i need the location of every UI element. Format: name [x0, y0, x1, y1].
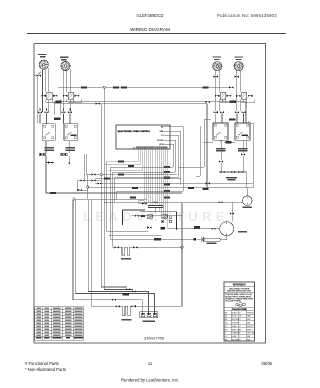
switch LF label [45, 147, 55, 149]
oven light label [121, 258, 131, 260]
bold bus [123, 210, 177, 230]
bottom bend wires to terminal block [73, 200, 155, 313]
wire label P-62 [54, 118, 61, 120]
wire y167 [111, 119, 212, 239]
svg-text:GREEN: GREEN [232, 323, 239, 325]
bowtie right bus [206, 101, 210, 103]
indicator bowtie 1 [220, 171, 224, 173]
color code separator [224, 306, 255, 308]
wire stub from switch LR [68, 141, 70, 165]
conv motor ticks [246, 197, 248, 205]
wire label HEAT left [56, 101, 62, 103]
door lock wave row [120, 305, 182, 307]
junction node [103, 86, 105, 88]
svg-text:BLACK: BLACK [232, 311, 239, 314]
surface unit RF [39, 60, 48, 69]
svg-text:ELECTRONIC OVEN CONTROL: ELECTRONIC OVEN CONTROL [118, 131, 151, 133]
svg-text:L2 OUT: L2 OUT [157, 140, 164, 142]
EOC right pin wires bending down [170, 127, 183, 191]
svg-text:A1: A1 [133, 147, 135, 150]
wire gauge table text [37, 308, 83, 337]
surface switch LR box [64, 124, 78, 141]
electronic oven control box [116, 125, 170, 149]
surface switch RF box [235, 123, 250, 140]
wire label [118, 173, 124, 175]
surface unit RF2 [234, 62, 243, 71]
wire label right bus [230, 101, 237, 103]
wire label P-63 [229, 118, 236, 120]
limiter LR loop wire [68, 100, 81, 103]
svg-text:WIRING DIAGRAM: WIRING DIAGRAM [130, 27, 170, 32]
warning box [224, 282, 255, 341]
terminal block label [143, 321, 156, 323]
relay pins 2 [169, 220, 171, 222]
surface switch RR box [213, 123, 228, 140]
hot surface indicator row [207, 172, 246, 188]
bowtie [218, 201, 222, 203]
limiter RR [215, 92, 231, 99]
wire y202.3 conv feed [104, 202, 242, 221]
svg-text:Publication No: 5995436903: Publication No: 5995436903 [217, 13, 277, 18]
wire label OR-36 [50, 192, 56, 194]
connector below switch LR [61, 153, 67, 156]
wire drop to switch A [54, 102, 61, 115]
conv motor label [243, 207, 253, 209]
bowtie [116, 305, 120, 307]
surface unit LF [61, 61, 70, 70]
wire label [154, 238, 161, 240]
connector bowtie RF [235, 76, 239, 78]
connector below switch LF [39, 153, 45, 156]
limiter RR loop wire [220, 100, 233, 103]
dark blob [161, 227, 166, 230]
wire left drop [34, 72, 41, 124]
bowtie on bus [229, 86, 233, 88]
limiter RF loop wire [241, 100, 254, 103]
nested corner wires [107, 231, 162, 239]
wire y161.5 [106, 162, 108, 232]
wire label [118, 160, 124, 162]
svg-text:L2 IN: L2 IN [159, 144, 164, 146]
conv motor [243, 196, 253, 206]
svg-text:YELLOW STRIPE.: YELLOW STRIPE. [225, 301, 241, 303]
connector bowtie [44, 111, 48, 113]
hot surface indicator label [226, 177, 237, 179]
wire y178.6 [95, 178, 181, 180]
tracer paragraph [225, 293, 253, 302]
switch RR label [216, 148, 226, 150]
wire drops from surface unit RF [237, 71, 244, 112]
indicator lamp [231, 171, 235, 173]
switch LR label [66, 147, 76, 149]
wire stubs into switch A [40, 108, 70, 124]
svg-text:GRAY: GRAY [232, 335, 238, 338]
wire y191 [117, 191, 183, 199]
svg-text:GRAY: GRAY [232, 325, 238, 328]
wire y215.7 [132, 215, 183, 217]
svg-text:BLUE: BLUE [232, 316, 237, 318]
EOC pin stubs [164, 127, 170, 145]
connector bowtie [68, 111, 72, 113]
door lock wave element [121, 306, 133, 316]
oven light row [113, 246, 183, 248]
wire label [130, 196, 136, 198]
wire label on RR wire [226, 141, 232, 143]
wire bend into switch D [245, 102, 247, 124]
limiter LF [41, 92, 57, 99]
bowtie lower [147, 226, 151, 228]
wire into fan motor [168, 228, 220, 230]
wire y174.4 [86, 126, 200, 176]
bowtie right [206, 182, 210, 184]
pin wire label 5 [164, 190, 170, 192]
bowtie [80, 180, 84, 182]
color code rows [225, 311, 255, 341]
limiter RF [236, 92, 252, 99]
relay contact pair [162, 220, 164, 222]
bowtie on L1 run [112, 299, 116, 301]
connector bowtie RR [213, 76, 217, 78]
indicator bowtie 2 [238, 171, 242, 173]
pin wire label 4 [164, 183, 170, 185]
relay cluster flat box [148, 206, 163, 212]
EOC ribbon wires [104, 149, 167, 229]
svg-text:05/06: 05/06 [262, 361, 273, 366]
surface switch LF box [42, 124, 55, 141]
bowtie on L2 bus [96, 103, 100, 105]
bowtie on LF wire [48, 161, 52, 163]
svg-text:BK: BK [161, 126, 164, 128]
L1 N pair down [73, 200, 75, 300]
vent wire from fan [221, 236, 227, 240]
connector bowtie [61, 111, 65, 113]
vertical x182 [181, 203, 183, 306]
surface unit LF label [60, 57, 69, 58]
vent label [207, 242, 217, 244]
wire label BK-23 [121, 86, 127, 88]
fuse terminal [194, 238, 197, 241]
diagonal connector bowties [126, 288, 136, 293]
bowtie [241, 111, 245, 113]
limiter LF loop wire [46, 100, 60, 103]
bowtie [131, 305, 135, 307]
connector P1 bowtie [36, 75, 40, 77]
wire from switch D down right [248, 121, 253, 188]
warning separator 2 [224, 292, 255, 294]
oven vent element [205, 238, 221, 241]
svg-text:* Non-Illustrated Parts: * Non-Illustrated Parts [25, 367, 66, 372]
bowtie row above right switches [213, 111, 217, 113]
wire label [123, 293, 130, 295]
wire y172 [113, 172, 176, 247]
wire label [104, 178, 110, 180]
svg-text:BEFORE SERVICING UNIT: BEFORE SERVICING UNIT [227, 291, 252, 293]
bowtie [91, 173, 95, 175]
junction node [181, 246, 183, 248]
wire label RD-40 [81, 86, 87, 88]
thermal fuse [201, 237, 205, 243]
bowtie [220, 111, 224, 113]
junction node [73, 198, 75, 200]
bowtie [235, 111, 239, 113]
pin arrow [68, 163, 70, 165]
bowtie [135, 215, 139, 217]
pin wire label 3 [164, 177, 170, 179]
diagram border [34, 44, 266, 344]
svg-text:GN-YL: GN-YL [238, 304, 245, 306]
limiter LR [63, 92, 79, 99]
svg-text:GLEF369DCD: GLEF369DCD [137, 13, 164, 18]
wire y187.9 [77, 188, 253, 190]
svg-text:PURPLE: PURPLE [247, 312, 255, 314]
bowtie [153, 201, 157, 203]
bowtie [115, 246, 119, 248]
svg-text:GRL: GRL [160, 131, 164, 133]
svg-text:L1: L1 [161, 135, 163, 137]
surface unit RR label [213, 56, 222, 57]
EOC bottom pin row [133, 146, 168, 149]
pin wire label 6 [164, 197, 170, 199]
surface unit RF label [38, 54, 47, 55]
connector below switch RF [241, 153, 245, 155]
bake relay [147, 215, 153, 218]
bowtie [142, 203, 146, 205]
bus wire L1 top [58, 86, 234, 88]
wire label [194, 226, 200, 228]
wire y177.5 [115, 178, 178, 203]
wire from switch LF down [46, 141, 182, 193]
junction node [100, 173, 102, 175]
wire gauge table bold row [36, 337, 83, 339]
fan motor [220, 222, 234, 236]
wire drops from surface unit LR [64, 69, 71, 112]
oven light element [121, 247, 132, 255]
relay cluster connector boxes [139, 201, 145, 203]
wire RF connector down [243, 140, 246, 172]
warning separator [224, 286, 255, 288]
switch RF label [238, 148, 248, 150]
wire bend L2 right drop [206, 104, 208, 188]
bowtie [91, 180, 95, 182]
svg-text:WARNING: WARNING [233, 283, 246, 287]
surface unit RR [213, 62, 222, 71]
svg-text:11: 11 [148, 361, 153, 366]
wire label [203, 188, 209, 190]
bowtie [78, 189, 82, 191]
pin wire label 1 [164, 166, 170, 168]
wire label [132, 187, 138, 189]
surface unit RF2 label [234, 56, 243, 57]
wire conv to indicator [246, 188, 248, 196]
left hub verticals [77, 154, 88, 199]
wire stubs into right switches [216, 114, 244, 124]
wire from switch RR across [203, 140, 235, 142]
fuse wire [140, 238, 194, 240]
svg-text:VIOLET: VIOLET [247, 326, 254, 328]
svg-text:W: W [239, 329, 241, 331]
svg-text:YELLOW: YELLOW [247, 333, 255, 335]
connector below switch RR [219, 160, 223, 162]
svg-text:WHITE: WHITE [247, 329, 254, 331]
wire label [128, 165, 134, 167]
wire gauge table [35, 307, 84, 340]
wire drops from surface unit LF [43, 68, 49, 112]
wire y180.6 [77, 180, 101, 182]
vertical main feed [101, 89, 133, 290]
door lock label [122, 319, 132, 321]
broil relay [162, 215, 168, 218]
relay label [140, 215, 145, 217]
relay pins [169, 216, 171, 218]
junction node [87, 186, 89, 188]
fan motor ticks [226, 222, 228, 236]
wire drops from surface unit RR [216, 71, 223, 112]
pin wire label 2 [164, 171, 170, 173]
svg-text:Rendered by LeadVenture, Inc.: Rendered by LeadVenture, Inc. [121, 378, 179, 383]
terminal block [140, 312, 158, 318]
svg-text:# Functional Parts: # Functional Parts [25, 361, 59, 366]
GN-YL oval [236, 303, 246, 306]
bowtie [97, 182, 101, 184]
connector bowtie row above switches [38, 111, 42, 113]
bowtie on conv drop [230, 213, 234, 215]
wire y199 [74, 198, 147, 200]
wire label BK-22 [113, 86, 119, 88]
vent feed wire [197, 239, 206, 241]
wire RR connector [220, 140, 222, 172]
bowtie [133, 246, 137, 248]
wire y183.4 [95, 182, 253, 184]
wire label RD-41 [203, 86, 209, 88]
bus wire L2 upper [54, 102, 246, 104]
title rule [27, 33, 286, 35]
wire label [188, 187, 194, 189]
svg-text:316417759: 316417759 [144, 335, 165, 340]
fan motor label [238, 231, 247, 233]
bowtie [211, 228, 215, 230]
color code table grid [224, 311, 255, 341]
